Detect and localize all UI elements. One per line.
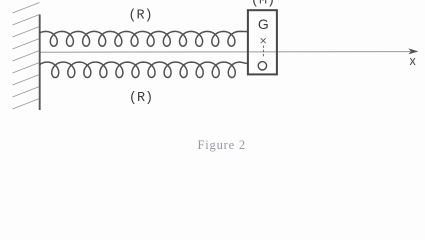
svg-text:G: G: [258, 16, 269, 32]
wall hatching: [13, 3, 40, 110]
svg-text:Figure 2: Figure 2: [198, 138, 246, 152]
svg-text:(R): (R): [128, 8, 152, 23]
spring R top: [40, 31, 249, 46]
wall: [39, 15, 41, 111]
svg-text:x: x: [409, 54, 416, 68]
dashed line G to O: [262, 46, 264, 57]
marker x at G: [261, 38, 266, 43]
point O circle: [258, 62, 266, 70]
spring R bottom: [40, 62, 249, 78]
svg-text:(R): (R): [129, 91, 153, 106]
x-axis line: [40, 51, 414, 54]
x-axis arrowhead: [408, 48, 418, 54]
block M: [248, 10, 277, 74]
svg-text:(M): (M): [251, 0, 275, 9]
